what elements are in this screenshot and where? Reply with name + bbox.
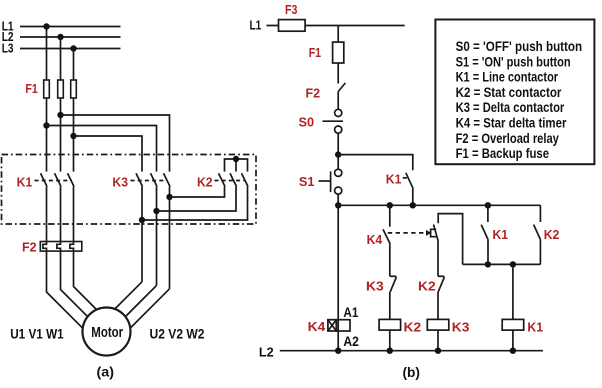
overload relay F2 heater pole 2 [57, 242, 61, 252]
junction node A [335, 151, 341, 157]
wire K3 interlock to K2 coil [389, 292, 391, 320]
svg-text:A2: A2 [343, 333, 359, 349]
svg-text:K2 = Stat contactor: K2 = Stat contactor [456, 84, 562, 100]
aux contact K2 blade [534, 225, 541, 240]
svg-text:K3: K3 [452, 319, 470, 334]
wire motor lead U1 [47, 251, 83, 328]
fuse F1 body [333, 42, 344, 63]
wire node B to K4 coil [337, 205, 339, 331]
svg-text:L1: L1 [250, 18, 262, 33]
wire K1 pole1 lower [46, 187, 48, 242]
legend box [435, 20, 594, 165]
svg-text:K2: K2 [544, 227, 560, 242]
junction L2 K3 [435, 348, 441, 354]
interlock contact K2 blade [438, 277, 444, 292]
contactor K2 pole 2 [230, 173, 237, 186]
junction phase3 feed tap [70, 133, 76, 139]
wire L3 phase line [20, 48, 121, 50]
wire K1 pole3 lower [73, 187, 75, 242]
wire K2 coil to L2 [389, 330, 391, 351]
contactor K3 pole 2 [151, 173, 158, 186]
contactor K1 pole 2 [55, 173, 62, 186]
wire K3 coil to L2 [437, 330, 439, 351]
svg-text:K2: K2 [404, 319, 422, 334]
junction node B [335, 202, 341, 208]
wire K2 aux lower [539, 240, 541, 265]
timer actuator bracket [431, 229, 437, 236]
contactor K2 linkage dashes [215, 180, 246, 182]
overload relay F2 body [40, 242, 82, 252]
svg-text:K1: K1 [493, 227, 509, 242]
wire node B rail [338, 204, 540, 206]
svg-text:F1: F1 [25, 81, 37, 96]
wire link K3 pole3 to K2 pole1 [170, 187, 225, 198]
wire motor lead W2 [115, 282, 142, 309]
svg-text:A1: A1 [343, 304, 358, 320]
junction aux node K1 [485, 261, 491, 267]
coil K3 body [427, 319, 449, 330]
junction L2 K2 [387, 348, 393, 354]
svg-text:L2: L2 [259, 344, 274, 359]
contactor K1 pole 1 [41, 173, 48, 186]
aux contact K1 blade [481, 225, 488, 240]
wire L1 phase line [20, 26, 121, 28]
wire node A to K1 branch [338, 155, 413, 171]
svg-text:F2: F2 [306, 86, 321, 101]
wire phase2 below fuse to K1 [60, 98, 62, 172]
svg-text:S1: S1 [299, 174, 315, 189]
wire K1 pole2 lower [60, 187, 62, 242]
svg-text:K1 = Line contactor: K1 = Line contactor [456, 69, 559, 85]
dashed enclosure box [2, 155, 257, 225]
wire K4 contact to K3 interlock [389, 244, 391, 276]
contact K1 seal-in dash [403, 177, 407, 179]
wire link K3 pole1 to K2 pole3 [142, 187, 248, 221]
wire motor lead U2 [130, 289, 169, 328]
svg-text:K1: K1 [17, 175, 33, 190]
motor M1 circle [83, 308, 131, 356]
svg-text:F3: F3 [285, 2, 297, 17]
wire feed phase3 to K3 pole1 [74, 136, 143, 172]
junction K3 pole1 to K2 [139, 217, 145, 223]
junction K3 pole2 to K2 [153, 208, 159, 214]
wire K4 coil to L2 [337, 331, 339, 351]
wire rail to K1 aux [487, 205, 489, 222]
contactor K1 linkage dashes [35, 180, 73, 182]
timer coil K4 body [336, 320, 350, 331]
svg-text:S0 = 'OFF' push button: S0 = 'OFF' push button [456, 38, 582, 54]
svg-text:F2 = Overload relay: F2 = Overload relay [456, 130, 559, 146]
wire phase3 drop to fuse [73, 49, 75, 81]
svg-text:K3 = Delta contactor: K3 = Delta contactor [456, 99, 565, 115]
wire K3 pole3 lower [169, 187, 171, 289]
wire motor lead V2 [125, 286, 156, 317]
fuse F1 pole 2 [58, 80, 64, 98]
svg-text:S0: S0 [299, 115, 315, 130]
contact K1 seal-in blade [406, 173, 413, 189]
junction on L2 [57, 34, 63, 40]
overload relay F2 heater pole 1 [43, 242, 47, 252]
wire node A to S1 [337, 155, 339, 170]
wire L2 rail [280, 350, 543, 352]
contactor K3 pole 1 [136, 173, 143, 186]
wire timer branch feed [438, 214, 462, 265]
overload contact F2 blade [338, 83, 345, 92]
push button S1 stem [319, 180, 331, 182]
junction on L3 [70, 45, 76, 51]
coil K2 body [379, 319, 401, 330]
wire feed phase2 to K3 pole3 [61, 115, 170, 172]
wire S0 to node A [337, 133, 339, 154]
interlock contact K2 bar [438, 275, 444, 277]
wire F2 to S0 [337, 92, 339, 110]
wire K2 star bridge centre stub [235, 159, 237, 172]
svg-text:K3: K3 [366, 278, 384, 293]
contactor K1 pole 3 [68, 173, 75, 186]
wire K1 aux lower [487, 240, 489, 265]
contactor K2 pole 3 [242, 173, 249, 186]
wire motor lead W1 [74, 251, 97, 310]
junction aux node coil drop [510, 261, 516, 267]
timer coil K4 cross lines [328, 320, 336, 331]
wire rail to K2 aux [539, 205, 541, 222]
junction rail K1 branch [410, 202, 416, 208]
junction L2 K1 [510, 348, 516, 354]
svg-text:K1: K1 [527, 319, 543, 334]
timed contact K4b blade [434, 225, 439, 241]
wire S1 to node B [337, 194, 339, 205]
wire rail to K4 contact [389, 205, 391, 227]
junction phase2 feed tap [57, 112, 63, 118]
timer coil K4 crossed box [328, 320, 336, 331]
contactor K3 pole 3 [164, 173, 171, 186]
timer actuator arrowhead [426, 230, 431, 236]
junction rail K4 branch [387, 202, 393, 208]
wire L1 supply [267, 25, 405, 27]
svg-text:S1 = 'ON' push button: S1 = 'ON' push button [456, 53, 571, 69]
fuse F3 body [279, 20, 306, 32]
fuse F1 pole 3 [71, 80, 77, 98]
wire phase2 drop to fuse [60, 37, 62, 80]
wire motor lead V1 [61, 251, 88, 317]
push button S1 actuator bar [330, 171, 332, 192]
svg-text:K4: K4 [367, 232, 383, 247]
svg-text:F2: F2 [22, 239, 37, 254]
wire F1 to F2 contact [337, 63, 339, 84]
wire drop to F1 [337, 26, 339, 43]
svg-text:K2: K2 [197, 175, 213, 190]
svg-text:L3: L3 [2, 41, 14, 56]
coil K1 body [502, 319, 524, 330]
push button S0 upper contact [335, 109, 342, 116]
svg-text:K4: K4 [308, 319, 326, 334]
junction on L1 [43, 23, 49, 29]
timed contact K4 linkage dashes [388, 232, 426, 234]
push button S0 actuator bar [323, 120, 344, 122]
wire feed phase1 to K3 pole2 [47, 126, 157, 172]
push button S1 lower contact [335, 187, 342, 194]
contactor K2 pole 1 [219, 173, 226, 186]
push button S1 upper contact [335, 169, 342, 176]
svg-text:K3: K3 [112, 175, 128, 190]
svg-text:(b): (b) [403, 364, 421, 380]
svg-text:K2: K2 [418, 278, 436, 293]
interlock contact K3 blade [390, 277, 396, 292]
wire phase3 below fuse to K1 [73, 98, 75, 172]
svg-text:U1 V1 W1: U1 V1 W1 [10, 325, 64, 341]
svg-text:U2 V2 W2: U2 V2 W2 [150, 325, 205, 341]
svg-text:F1 = Backup fuse: F1 = Backup fuse [456, 145, 550, 161]
wire K1 coil to L2 [512, 330, 514, 351]
junction K3 pole3 to K2 [166, 194, 172, 200]
wire K1 seal-in lower [412, 188, 414, 205]
wire K2 star bridge bar [225, 159, 248, 172]
wire phase1 below fuse to K1 [46, 98, 48, 172]
timed contact K4 blade [383, 229, 390, 244]
fuse F1 pole 1 [44, 80, 50, 98]
wire K2 interlock to K3 coil [437, 292, 439, 320]
svg-text:F1: F1 [309, 45, 321, 60]
svg-text:K4 = Star delta timer: K4 = Star delta timer [456, 115, 567, 131]
push button S0 lower contact [335, 126, 342, 133]
overload relay F2 heater pole 3 [70, 242, 74, 252]
wire L2 phase line [20, 36, 121, 38]
wire aux node line [463, 263, 541, 265]
junction star bridge [233, 156, 239, 162]
svg-text:K1: K1 [386, 172, 402, 187]
junction phase1 feed tap [43, 122, 49, 128]
wire phase1 drop to fuse [46, 27, 48, 81]
wire timer contact to K2 interlock [437, 241, 439, 277]
junction rail K1 aux branch [485, 202, 491, 208]
svg-text:Motor: Motor [91, 324, 123, 341]
wire K3 pole2 lower [156, 187, 158, 286]
svg-text:(a): (a) [97, 364, 115, 380]
junction L2 K4 [335, 348, 341, 354]
interlock contact K3 bar [390, 275, 397, 277]
contactor K3 linkage dashes [131, 180, 168, 182]
wire K3 pole1 lower [141, 187, 143, 282]
wire link K3 pole2 to K2 pole2 [157, 187, 237, 212]
wire drop to K1 coil [512, 264, 514, 319]
